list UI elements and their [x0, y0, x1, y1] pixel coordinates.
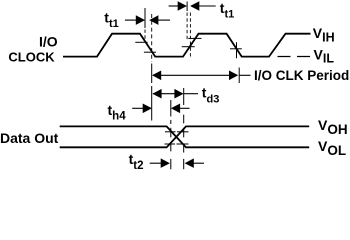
- svg-text:td3: td3: [202, 84, 220, 105]
- fall1 lower threshold tick: [144, 51, 156, 53]
- data out waveform upper: [60, 126, 310, 147]
- fall2 threshold tick: [230, 48, 242, 50]
- svg-text:th4: th4: [108, 102, 127, 122]
- dimension I/O CLK Period: [152, 71, 161, 81]
- data lower-left tick: [165, 143, 176, 145]
- svg-text:VIL: VIL: [314, 46, 335, 65]
- svg-text:CLOCK: CLOCK: [8, 49, 55, 64]
- clock waveform I/O CLOCK: [63, 34, 311, 57]
- data upper-left tick: [165, 131, 176, 133]
- fall2 vertical tick: [236, 42, 238, 58]
- vertical dashed line D: [189, 13, 191, 57]
- vertical tick B tt1 left boundary: [144, 8, 146, 28]
- svg-text:VIH: VIH: [313, 25, 335, 44]
- svg-text:I/O CLK Period: I/O CLK Period: [254, 68, 349, 83]
- dimension td3: [152, 89, 161, 99]
- VIL dashed leader: [278, 56, 311, 58]
- vertical dashed line A: [151, 14, 153, 62]
- svg-text:VOL: VOL: [318, 138, 346, 158]
- svg-text:I/O: I/O: [39, 34, 58, 50]
- vertical line E data transition start: [170, 100, 172, 169]
- data lower-right tick: [177, 143, 189, 145]
- vertical tick C tt1-2 left boundary: [186, 2, 188, 12]
- data out waveform lower: [60, 126, 310, 147]
- svg-text:Data Out: Data Out: [0, 130, 59, 146]
- rise2 lower threshold tick: [182, 46, 195, 48]
- svg-text:tt1: tt1: [220, 0, 234, 20]
- svg-text:VOH: VOH: [318, 117, 348, 137]
- svg-text:tt2: tt2: [129, 151, 144, 172]
- fall1 upper threshold tick: [135, 41, 147, 43]
- dimension tt1 second: [169, 5, 180, 7]
- data upper-right tick: [177, 131, 189, 133]
- vertical line F data transition end: [183, 88, 185, 169]
- svg-text:tt1: tt1: [104, 10, 118, 31]
- rise2 upper threshold tick: [188, 37, 201, 39]
